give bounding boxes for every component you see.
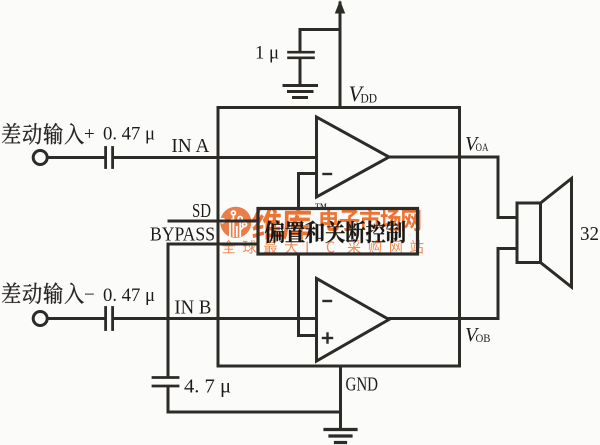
label 差动输入- — [2, 283, 84, 305]
capacitor 1u decoupling — [289, 52, 314, 58]
svg-text:OA: OA — [476, 140, 489, 154]
VDD arrow — [335, 0, 345, 14]
IC outline box — [218, 108, 460, 367]
ground (bottom) — [325, 430, 356, 443]
input terminal - — [33, 312, 47, 326]
svg-text:−: − — [84, 285, 95, 306]
wire IN A right — [114, 156, 317, 159]
bias/shutdown control box — [258, 209, 418, 255]
VDD supply line — [339, 3, 342, 108]
svg-text:IN B: IN B — [174, 298, 211, 319]
bias control box label 偏置和关断控制 — [265, 220, 406, 243]
svg-text:1 μ: 1 μ — [255, 43, 279, 64]
wire 1u cap to ground — [299, 59, 302, 85]
svg-text:BYPASS: BYPASS — [150, 225, 215, 246]
wire VoA — [389, 157, 517, 218]
svg-text:GND: GND — [346, 375, 379, 396]
wire IN B left — [48, 317, 104, 320]
watermark text 维库 — [252, 208, 311, 240]
wire bypass cap to bottom rail — [168, 387, 341, 412]
svg-text:0. 47 μ: 0. 47 μ — [103, 285, 155, 306]
svg-text:+: + — [84, 124, 95, 145]
svg-text:OB: OB — [476, 331, 491, 345]
label 差动输入+ — [2, 123, 84, 145]
svg-text:IN A: IN A — [171, 136, 209, 157]
op-amp A inverting input dash — [324, 173, 332, 175]
bias feedback wire to op-amp B — [299, 254, 317, 336]
bias feedback wire to op-amp A — [299, 174, 317, 209]
op-amp B (bottom) — [317, 279, 390, 362]
wire BYPASS — [168, 243, 258, 246]
speaker driver box — [517, 203, 541, 263]
svg-text:0. 47 μ: 0. 47 μ — [103, 124, 155, 145]
wire BYPASS to bypass capacitor — [167, 244, 170, 377]
svg-text:SD: SD — [192, 201, 211, 222]
wire branch to 1u cap — [299, 30, 302, 52]
capacitor 0.47u (IN B) — [106, 308, 113, 330]
wire IN A left — [48, 156, 104, 159]
watermark text 全球最大IC采购网站 — [222, 240, 423, 254]
wire IN B right — [114, 317, 317, 320]
svg-text:DD: DD — [361, 91, 378, 106]
ground (top, at 1u cap) — [284, 86, 317, 98]
speaker cone — [541, 179, 572, 288]
wire SD — [169, 220, 258, 223]
GND pin wire — [339, 366, 342, 428]
op-amp A (top) — [317, 117, 390, 197]
VDD branch to decoupling cap — [300, 28, 340, 31]
input terminal + — [33, 151, 47, 165]
watermark text 电子市场网 — [320, 208, 420, 231]
svg-text:4. 7 μ: 4. 7 μ — [184, 377, 231, 398]
op-amp B inverting input dash — [324, 300, 332, 302]
capacitor 0.47u (IN A) — [106, 148, 113, 168]
svg-text:32: 32 — [580, 223, 599, 245]
op-amp B plus sign — [323, 334, 332, 343]
wire VoB — [389, 249, 517, 319]
capacitor 4.7u bypass — [153, 378, 178, 387]
watermark logo circle — [220, 207, 251, 238]
